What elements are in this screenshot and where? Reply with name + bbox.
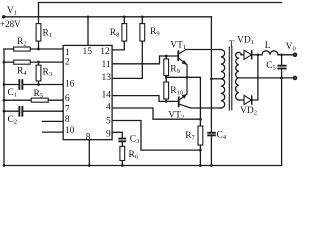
wire R7 column [199, 119, 201, 165]
node R7 top [199, 118, 202, 121]
capacitor C5 plates [277, 65, 286, 67]
svg-text:5: 5 [106, 116, 111, 126]
wire R9 base resistor column [165, 56, 167, 77]
resistor R9 base [164, 59, 169, 76]
wire R8 top lead to rail [123, 17, 125, 24]
svg-text:1: 1 [65, 48, 70, 58]
svg-text:V0: V0 [286, 42, 296, 53]
node R8 rail [123, 15, 126, 18]
wire pin 13 to R9 pullup [112, 41, 142, 78]
svg-text:R3: R3 [43, 68, 53, 79]
wire left bus [3, 49, 5, 166]
wire emitter junction line [166, 76, 187, 78]
wire VD1 anode from secondary top [241, 54, 244, 56]
wire R5 line to pin 6 [4, 99, 63, 101]
wire +28V supply rail [4, 16, 212, 18]
wire pin 12 to R8 [112, 41, 124, 50]
capacitor C1 plates [18, 79, 20, 90]
resistor R8 [122, 24, 127, 41]
node R6 ground [121, 164, 124, 167]
resistor R6 [120, 146, 125, 160]
capacitor C3 plates [118, 138, 126, 140]
wire bottom ground rail [4, 165, 282, 167]
node C5 bottom [280, 77, 283, 80]
input terminal [2, 15, 5, 18]
wire VT2 collector to primary bottom [191, 107, 221, 109]
resistor R10 [164, 82, 169, 99]
svg-text:15: 15 [83, 47, 93, 57]
wire IC ground pin 8 [88, 140, 90, 166]
wire pin 8 stub [43, 120, 64, 122]
output terminal minus [293, 76, 296, 79]
output terminal plus [293, 53, 296, 56]
svg-text:R9: R9 [150, 27, 160, 38]
transformer T primary winding [221, 50, 225, 109]
svg-text:13: 13 [102, 73, 112, 83]
wire pin 5 to R7 bottom [112, 121, 200, 151]
wire C2 line to pin 7 [4, 110, 63, 112]
svg-text:+28V: +28V [0, 19, 21, 29]
svg-text:R2: R2 [17, 37, 27, 48]
svg-text:4: 4 [106, 103, 111, 113]
svg-text:7: 7 [65, 105, 70, 115]
wire center tap stub into primary [211, 78, 221, 80]
svg-text:C5: C5 [266, 61, 276, 72]
wire R10 column [165, 77, 167, 101]
node bus C2 [3, 110, 6, 113]
node R9 rail [141, 15, 144, 18]
node R3 bottom [37, 83, 40, 86]
svg-text:R7: R7 [185, 131, 195, 142]
wire pin 2 line through R4 [4, 61, 63, 63]
inductor L winding [262, 51, 278, 55]
node R3 top [37, 61, 40, 64]
wire pin 9 to C3 [112, 132, 122, 137]
wire +28V feed down to transformer center tap and C4 [210, 17, 212, 132]
wire pin 1 line through R2 [4, 48, 63, 50]
diode VD1 [244, 50, 252, 59]
IC U1 box [63, 45, 112, 139]
wire R3 column [38, 62, 40, 84]
resistor R3 [36, 65, 41, 81]
svg-text:VD2: VD2 [240, 106, 257, 117]
svg-text:9: 9 [106, 129, 111, 139]
wire pin 4 to R7 top [112, 108, 200, 119]
wire C3 to R6 to ground [121, 142, 123, 165]
wire VT1 collector to primary top [186, 49, 221, 51]
svg-text:T: T [229, 40, 235, 50]
wire VD2 anode from secondary bottom [239, 99, 244, 101]
svg-text:C2: C2 [8, 115, 18, 126]
svg-text:R10: R10 [170, 86, 183, 97]
diode VD2 [244, 95, 252, 104]
node R7 bottom [199, 149, 202, 152]
node VD1 VD2 join [257, 53, 260, 56]
wire VD1 cathode to L [252, 54, 262, 56]
node bus ground [3, 164, 6, 167]
svg-text:12: 12 [100, 47, 110, 57]
resistor R4 [14, 60, 31, 64]
svg-text:8: 8 [65, 115, 70, 125]
node bus pin2 [3, 61, 6, 64]
svg-text:R9: R9 [170, 65, 180, 76]
capacitor C2 plates [18, 106, 20, 117]
node bus C1 [3, 83, 6, 86]
svg-text:R5: R5 [34, 89, 44, 100]
svg-text:VT1: VT1 [170, 41, 186, 52]
svg-text:R1: R1 [43, 29, 53, 40]
svg-text:R6: R6 [129, 150, 139, 161]
wire emitters to current sense R7 [187, 77, 200, 119]
svg-text:VD1: VD1 [237, 36, 254, 47]
resistor R5 [31, 98, 48, 102]
resistor R2 [14, 47, 31, 51]
node pin15 rail [87, 15, 90, 18]
wire pin 14 to VT2 base [112, 96, 179, 102]
wire pin 10 stub [43, 131, 64, 133]
node center tap [210, 77, 213, 80]
svg-text:6: 6 [65, 94, 70, 104]
wire output node vertical with C5 down to ground rail [281, 55, 283, 166]
node emitter junction [186, 76, 189, 79]
svg-text:R8: R8 [110, 28, 120, 39]
node C4 ground [210, 164, 213, 167]
wire L to output terminal [278, 54, 295, 56]
node pin7 edge [62, 110, 64, 112]
wire pin 15 to +28V rail [87, 17, 89, 46]
wire output return line from secondary tap [239, 77, 295, 79]
svg-text:10: 10 [65, 126, 75, 136]
wire top feedback rail from R1 top to output node [39, 2, 282, 4]
svg-text:C4: C4 [217, 131, 227, 142]
node R10 bottom [165, 100, 168, 103]
node R9 base top [165, 55, 168, 58]
svg-text:C3: C3 [130, 135, 140, 146]
svg-text:11: 11 [102, 60, 111, 70]
svg-text:16: 16 [65, 80, 75, 90]
svg-text:C1: C1 [8, 88, 18, 99]
svg-text:VT2: VT2 [168, 111, 184, 122]
svg-text:8: 8 [86, 133, 91, 143]
node R9 R10 junction [165, 76, 168, 79]
transistor VT2 [178, 77, 191, 108]
node IC ground [88, 164, 91, 167]
resistor R1 [36, 24, 41, 41]
svg-text:L: L [265, 41, 271, 51]
svg-text:R4: R4 [17, 67, 27, 78]
svg-text:V1: V1 [7, 6, 17, 17]
node output feedback [280, 53, 283, 56]
resistor R9 pullup [140, 24, 145, 41]
wire pin 11 to VT1 base [112, 56, 178, 64]
wire C4 bottom lead to ground rail [210, 135, 212, 166]
wire R9 pullup top lead to rail [141, 17, 143, 24]
svg-text:2: 2 [65, 58, 70, 68]
wire C1 line to pin 16 [4, 84, 63, 86]
wire R1 column (feedback to pin1 line) [38, 3, 40, 50]
node R1 bottom [37, 48, 40, 51]
capacitor C4 plates [207, 132, 216, 134]
resistor R7 [198, 126, 203, 145]
node R7 ground [199, 164, 202, 167]
transistor VT1 [177, 50, 187, 78]
transformer secondary winding [236, 52, 242, 100]
node bus R5 [3, 99, 6, 102]
wire VD2 cathode up to output line [252, 55, 258, 100]
transformer core lines [229, 47, 232, 110]
svg-text:14: 14 [102, 91, 112, 101]
